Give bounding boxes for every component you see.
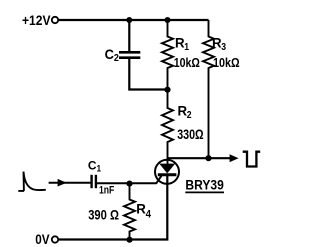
- svg-text:R: R: [178, 103, 188, 118]
- svg-text:R: R: [175, 36, 185, 51]
- wire C2 bottom lead to R1/R2 node: [129, 59, 167, 90]
- output arrowhead: [230, 154, 239, 162]
- thyristor U1 BRY39: [155, 160, 179, 184]
- underline BRY39: [185, 191, 224, 193]
- svg-text:10kΩ: 10kΩ: [213, 55, 240, 70]
- node junction gate / R4: [126, 181, 132, 187]
- wire output line from anode: [168, 157, 232, 159]
- capacitor C1: [92, 175, 96, 188]
- wire input to C1: [49, 182, 91, 184]
- capacitor C2: [119, 52, 140, 57]
- svg-text:1: 1: [184, 41, 189, 53]
- input pulse waveform symbol: [18, 172, 46, 191]
- node junction top rail / C2: [126, 17, 132, 23]
- svg-text:2: 2: [114, 52, 119, 64]
- resistor R4: [124, 184, 135, 240]
- svg-text:1: 1: [97, 163, 102, 174]
- anode triangle: [159, 164, 175, 174]
- svg-text:0V: 0V: [35, 232, 50, 247]
- svg-text:BRY39: BRY39: [185, 177, 223, 192]
- svg-text:4: 4: [146, 209, 151, 221]
- terminal 0V: [52, 236, 58, 242]
- terminal +12V: [52, 17, 58, 23]
- cathode bar: [158, 173, 177, 176]
- svg-text:330Ω: 330Ω: [177, 127, 203, 142]
- envelope circle: [155, 160, 179, 184]
- resistor R1: [162, 20, 173, 90]
- wire top supply rail: [59, 19, 209, 21]
- svg-text:1nF: 1nF: [99, 184, 115, 196]
- resistor R2: [162, 90, 173, 164]
- output pulse waveform symbol: [243, 152, 261, 167]
- wire gate line C1 to thyristor: [97, 182, 157, 184]
- wire C2 top lead: [128, 20, 130, 51]
- svg-text:390 Ω: 390 Ω: [88, 207, 119, 222]
- input arrowhead: [58, 179, 67, 187]
- node junction output / R3: [205, 155, 211, 161]
- svg-text:3: 3: [221, 41, 226, 53]
- node junction R1/R2/C2: [164, 87, 170, 93]
- wire cathode to bottom rail: [59, 175, 168, 240]
- svg-text:C: C: [88, 158, 97, 172]
- resistor R3: [203, 20, 214, 158]
- svg-text:10kΩ: 10kΩ: [174, 55, 200, 70]
- node junction top rail / R1: [165, 17, 171, 23]
- svg-text:R: R: [212, 36, 222, 51]
- svg-text:R: R: [136, 202, 146, 217]
- svg-text:+12V: +12V: [22, 13, 51, 29]
- node junction R4 / bottom rail: [126, 237, 132, 243]
- svg-text:2: 2: [187, 109, 192, 121]
- gate lead diagonal: [156, 176, 161, 184]
- svg-text:C: C: [105, 47, 114, 62]
